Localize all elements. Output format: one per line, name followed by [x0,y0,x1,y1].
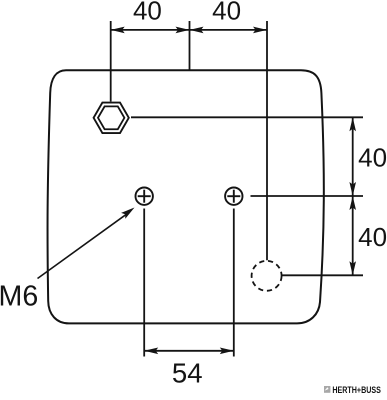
arrowhead right-mid-down [349,196,356,210]
arrowhead top-left [111,27,125,34]
svg-text:40: 40 [212,0,241,26]
M6 leader arrowhead [121,208,134,219]
hex hole inner [98,106,124,129]
svg-text:40: 40 [358,143,387,173]
hidden hole (dashed circle) [252,261,282,291]
arrowhead right-bottom [349,261,356,275]
bottom dimension line 54 [144,350,234,352]
arrowhead bottom-left [144,348,158,355]
arrowhead right-mid-up [349,182,356,196]
extension line top middle [189,21,191,70]
svg-text:M6: M6 [0,280,38,312]
extension line top right [266,21,268,260]
svg-text:HERTH+BUSS: HERTH+BUSS [332,385,381,395]
hole 2 reference line [251,195,364,197]
svg-text:40: 40 [133,0,162,26]
hole 2 stem line [233,209,235,357]
M6 leader line [38,214,127,278]
mounting hole 1 (M6, circle-cross) [136,188,153,205]
hexagon reference line [131,116,363,118]
part outline (rounded square plate) [48,70,324,323]
hex hole outer [94,103,129,133]
arrowhead bottom-right [220,348,234,355]
extension line top left [110,21,112,102]
right dimension line [352,117,354,275]
svg-text:54: 54 [172,358,203,389]
arrowhead top-right [253,27,267,34]
arrowhead top-middle-left [190,27,204,34]
mounting hole 2 (M6, circle-cross) [225,188,242,205]
logo icon [324,386,330,393]
dashed hole reference line [282,274,363,276]
top dimension line [111,29,267,31]
hole 1 stem line [143,209,145,357]
arrowhead right-top [349,117,356,131]
arrowhead top-middle-right [176,27,190,34]
svg-text:40: 40 [358,222,387,252]
